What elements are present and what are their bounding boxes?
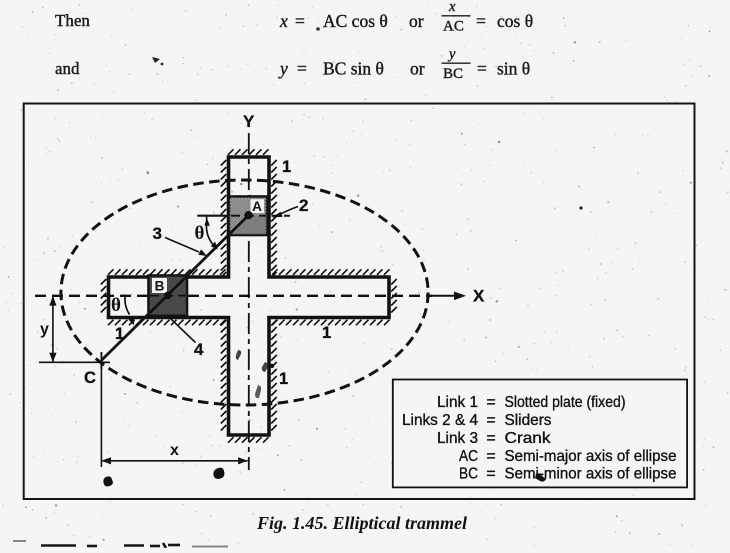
svg-text:Fig. 1.45. Elliptical trammel: Fig. 1.45. Elliptical trammel	[256, 513, 467, 533]
dashed ellipse (path of C)	[61, 180, 428, 405]
fraction bar 2	[442, 62, 471, 64]
svg-text:Link 3: Link 3	[437, 430, 478, 447]
svg-text:3: 3	[153, 224, 162, 243]
vertical centerline (Y axis, dash-dot)	[248, 133, 250, 470]
svg-text:B: B	[155, 279, 165, 294]
svg-text:x: x	[448, 0, 456, 15]
svg-text:and: and	[55, 59, 80, 78]
svg-text:y: y	[40, 321, 49, 338]
svg-text:AC: AC	[443, 19, 464, 35]
ink blobs (scan artifacts)	[103, 476, 112, 486]
svg-text:X: X	[473, 287, 485, 306]
legend text	[402, 394, 677, 483]
svg-text:Semi-minor axis of ellipse: Semi-minor axis of ellipse	[505, 466, 677, 483]
svg-text:1: 1	[282, 158, 291, 176]
svg-text:BC sin θ: BC sin θ	[323, 59, 384, 79]
svg-text:2: 2	[299, 196, 308, 215]
svg-text:A: A	[252, 199, 262, 214]
svg-text:BC: BC	[459, 466, 478, 483]
svg-text:cos θ: cos θ	[497, 11, 533, 31]
figure frame box	[24, 104, 695, 500]
X axis arrow (solid)	[431, 295, 461, 297]
svg-text:y: y	[278, 59, 288, 79]
svg-text:4: 4	[194, 340, 204, 359]
svg-text:or: or	[409, 11, 424, 31]
svg-text:C: C	[84, 369, 96, 387]
svg-text:=: =	[297, 59, 307, 79]
svg-text:Y: Y	[243, 112, 255, 131]
angle arc θ at A	[206, 222, 216, 249]
angle arc θ at B	[125, 295, 130, 315]
svg-text:=: =	[295, 11, 305, 31]
svg-text:θ: θ	[111, 295, 121, 316]
point C cross mark	[100, 352, 102, 369]
svg-text:=: =	[486, 430, 495, 447]
slotted plate: cross slot outline (link 1)	[109, 157, 390, 435]
equation 1: x = AC cos θ or x/AC = cos θ	[279, 0, 533, 35]
centerline dashes over slider A	[231, 215, 266, 217]
svg-text:1: 1	[279, 370, 288, 388]
legend box	[393, 380, 687, 488]
svg-text:AC: AC	[459, 448, 478, 465]
svg-text:Sliders: Sliders	[505, 412, 552, 429]
svg-text:Semi-major axis of ellipse: Semi-major axis of ellipse	[505, 448, 677, 465]
svg-text:θ: θ	[195, 223, 205, 244]
x dimension line with arrows	[101, 460, 247, 462]
bottom partial text (clipped next line)	[41, 543, 180, 548]
centerline dashes over slider B	[150, 295, 186, 297]
pin B	[164, 292, 172, 300]
svg-text:1: 1	[115, 325, 124, 343]
svg-text:=: =	[486, 412, 495, 429]
crank link 3 (line C-B-A)	[101, 215, 248, 360]
slider 4 (block B)	[149, 276, 188, 316]
svg-text:Crank: Crank	[505, 430, 552, 447]
svg-text:x: x	[279, 11, 288, 31]
x dimension: extension lines	[100, 362, 102, 467]
svg-text:sin θ: sin θ	[497, 59, 530, 79]
plate hatching	[101, 149, 397, 442]
y dimension: extension line through C	[39, 361, 110, 363]
fraction bar 1	[442, 15, 471, 17]
svg-text:=: =	[486, 466, 495, 483]
svg-text:or: or	[410, 59, 425, 79]
angle reference line at A	[197, 215, 228, 217]
svg-text:=: =	[477, 59, 487, 79]
svg-text:Links 2 & 4: Links 2 & 4	[402, 412, 478, 429]
svg-text:=: =	[486, 394, 495, 411]
y dimension line with arrows	[52, 296, 54, 362]
svg-text:Slotted plate (fixed): Slotted plate (fixed)	[505, 394, 626, 411]
svg-text:AC cos θ: AC cos θ	[323, 11, 388, 31]
svg-text:=: =	[476, 11, 486, 31]
svg-text:=: =	[486, 448, 495, 465]
svg-text:Then: Then	[55, 11, 90, 30]
svg-text:BC: BC	[443, 66, 463, 82]
svg-text:y: y	[447, 47, 456, 63]
slider 2 (block A)	[229, 197, 267, 236]
horizontal centerline (X axis, dashed)	[35, 295, 432, 297]
svg-text:Link 1: Link 1	[437, 394, 478, 411]
pin A	[244, 211, 252, 219]
equation 2: y = BC sin θ or y/BC = sin θ	[278, 47, 530, 83]
svg-text:1: 1	[322, 324, 331, 342]
dashed stub right of slider A	[272, 215, 291, 217]
svg-text:x: x	[170, 442, 179, 459]
